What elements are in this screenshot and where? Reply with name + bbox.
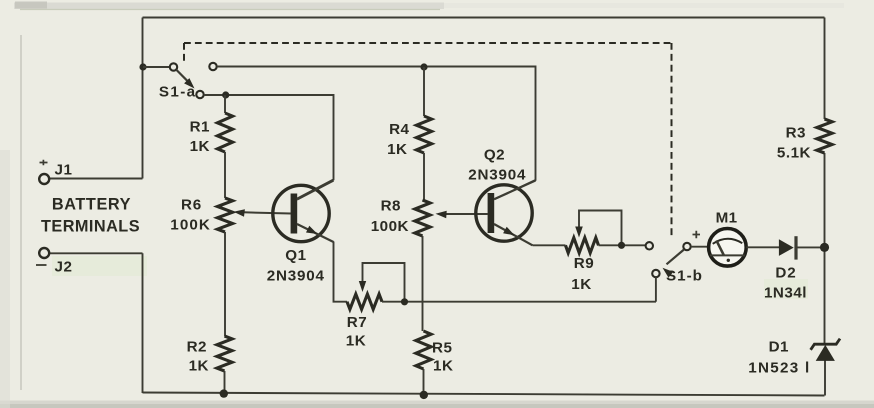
scan artifact green tint near J2 bbox=[52, 256, 147, 276]
svg-text:R7: R7 bbox=[347, 314, 367, 331]
wire S1-a pole to Q1 collector bbox=[204, 95, 334, 199]
svg-text:TERMINALS: TERMINALS bbox=[41, 218, 140, 236]
resistor R2 bbox=[217, 336, 232, 371]
node R2 bottom rail junction bbox=[220, 389, 228, 397]
svg-text:S1-b: S1-b bbox=[666, 268, 703, 285]
wire Q1 emitter down to R7 bbox=[334, 242, 348, 302]
meter M1 pivot tick bbox=[727, 259, 730, 262]
transistor Q1 emitter arrow bbox=[306, 226, 318, 234]
wire R8 wiper to Q2 base bbox=[446, 213, 488, 215]
wire R4 to R8 bbox=[423, 153, 425, 200]
wire R4 top lead bbox=[423, 67, 425, 116]
wire bottom rail bbox=[143, 393, 825, 396]
switch S1-a arm arrowhead bbox=[184, 78, 194, 88]
terminal J2 bbox=[39, 248, 49, 258]
svg-text:1K: 1K bbox=[189, 358, 209, 375]
wire Q2 emitter to R9 bbox=[533, 244, 566, 246]
wire R9 right lead bbox=[599, 244, 646, 246]
dashed gang link left drop bbox=[183, 43, 185, 62]
wire left rail (J1 to top) bbox=[142, 18, 144, 179]
resistor R3 bbox=[817, 119, 832, 153]
diode D2 cathode bar bbox=[794, 236, 797, 259]
switch S1-a arm bbox=[176, 70, 190, 85]
wire R5 bottom lead bbox=[423, 369, 425, 395]
transistor Q1 emitter stroke bbox=[297, 224, 334, 242]
dashed gang link horizontal bbox=[184, 42, 672, 44]
switch S1-b arm bbox=[667, 250, 685, 265]
rheostat R7 bbox=[347, 294, 382, 309]
svg-text:R8: R8 bbox=[381, 198, 401, 215]
wire right rail mid (R3 to D1) bbox=[824, 153, 826, 344]
meter M1 chord bbox=[710, 254, 745, 256]
node R1 top junction bbox=[222, 91, 229, 98]
wire S1-a throw2 to Q2 collector bbox=[217, 67, 536, 200]
svg-text:1K: 1K bbox=[346, 333, 366, 350]
scan artifact green tint near D2 label bbox=[764, 279, 808, 299]
svg-text:5.1K: 5.1K bbox=[777, 145, 811, 162]
svg-text:2N3904: 2N3904 bbox=[468, 167, 526, 184]
switch S1-b throw contact (from R9) bbox=[646, 242, 653, 249]
label meter + polarity bbox=[693, 231, 701, 239]
svg-text:R2: R2 bbox=[187, 339, 207, 356]
wire D2 to rail bbox=[797, 246, 822, 248]
arrow R7 wiper bbox=[359, 281, 366, 292]
wire S1-a throw1 stub bbox=[143, 66, 170, 68]
zener D1 cathode bar bbox=[811, 339, 840, 350]
svg-text:R5: R5 bbox=[432, 340, 452, 357]
svg-text:BATTERY: BATTERY bbox=[52, 196, 131, 214]
svg-text:R1: R1 bbox=[190, 119, 210, 136]
transistor Q1 body bbox=[273, 185, 329, 241]
wire R7 right lead to S1-b bbox=[382, 301, 656, 303]
wire R1 to R6 bbox=[224, 152, 226, 198]
svg-text:J2: J2 bbox=[55, 259, 73, 276]
svg-text:Q1: Q1 bbox=[285, 247, 306, 264]
node R7 wiper junction bbox=[401, 298, 408, 305]
svg-text:100K: 100K bbox=[170, 217, 211, 234]
svg-text:D2: D2 bbox=[775, 265, 796, 282]
wire M1 to D2 bbox=[746, 246, 779, 248]
wire R1 top lead bbox=[224, 95, 226, 113]
arrow R6 wiper bbox=[234, 209, 245, 217]
diode D2 triangle bbox=[779, 239, 794, 256]
switch S1-a throw1 contact bbox=[170, 63, 177, 70]
svg-text:1K: 1K bbox=[190, 138, 210, 155]
switch S1-b pole contact bbox=[652, 270, 659, 277]
svg-text:M1: M1 bbox=[716, 210, 738, 227]
transistor Q1 base bar bbox=[291, 194, 298, 234]
wire R8 to R5 bbox=[422, 236, 424, 331]
wire R2 bottom lead bbox=[224, 371, 226, 394]
dashed gang link right drop bbox=[671, 43, 673, 237]
resistor R4 bbox=[416, 116, 431, 153]
transistor Q2 body bbox=[476, 185, 532, 241]
wire S1-b to M1 bbox=[691, 246, 709, 248]
resistor R5 bbox=[416, 331, 431, 369]
svg-text:Q2: Q2 bbox=[484, 147, 505, 164]
svg-text:R9: R9 bbox=[574, 255, 594, 272]
svg-text:R6: R6 bbox=[181, 197, 202, 214]
wire J1 lead bbox=[49, 178, 143, 180]
transistor Q2 emitter arrow bbox=[503, 227, 514, 236]
node R4 top junction bbox=[420, 63, 427, 70]
svg-text:1K: 1K bbox=[433, 358, 453, 375]
scan artifact left band bbox=[0, 150, 10, 408]
wire right rail top (to R3) bbox=[824, 18, 826, 120]
scan artifact left edge line bbox=[20, 35, 22, 390]
wire R9 wiper loop bbox=[579, 211, 622, 246]
svg-text:100K: 100K bbox=[371, 218, 409, 235]
switch S1-a pole contact bbox=[196, 91, 203, 98]
scan artifact top band bbox=[14, 3, 444, 10]
terminal J1 bbox=[39, 174, 49, 184]
meter M1 scale arc bbox=[713, 239, 743, 244]
node D2 rail junction bbox=[820, 243, 829, 252]
resistor R1 bbox=[217, 113, 232, 152]
transistor Q2 emitter stroke bbox=[494, 224, 533, 245]
svg-text:1N523 l: 1N523 l bbox=[748, 360, 810, 377]
transistor Q2 collector stroke bbox=[494, 181, 536, 200]
svg-text:2N3904: 2N3904 bbox=[267, 268, 325, 285]
svg-text:1N34l: 1N34l bbox=[764, 285, 807, 302]
wire R6 wiper to Q1 base bbox=[243, 212, 291, 213]
meter M1 needle bbox=[716, 240, 724, 255]
switch S1-b arm arrowhead bbox=[663, 268, 674, 278]
wire R7 wiper loop bbox=[363, 263, 405, 302]
transistor Q1 collector stroke bbox=[297, 181, 334, 200]
node R5 bottom rail junction bbox=[420, 391, 428, 399]
potentiometer R6 bbox=[217, 198, 232, 232]
node R9 wiper junction bbox=[618, 242, 625, 249]
wire J2 lead bbox=[49, 252, 143, 254]
switch S1-a throw2 contact bbox=[209, 63, 216, 70]
node S1-a junction on left rail bbox=[139, 63, 146, 70]
wire left rail (J2 to bottom) bbox=[142, 253, 144, 393]
meter M1 body bbox=[709, 229, 747, 267]
switch S1-b meter-side contact bbox=[683, 243, 690, 250]
scan artifact bottom band bbox=[0, 401, 874, 405]
svg-text:J1: J1 bbox=[55, 162, 73, 179]
potentiometer R8 bbox=[415, 200, 430, 236]
zener D1 triangle bbox=[816, 345, 835, 361]
wire R6 to R2 bbox=[224, 232, 226, 336]
svg-text:R4: R4 bbox=[389, 121, 409, 138]
label J2 polarity - bbox=[36, 264, 47, 266]
scan artifact top-left smudge bbox=[15, 2, 47, 9]
label J1 polarity + bbox=[40, 160, 48, 165]
wire S1-b pole down bbox=[655, 277, 657, 302]
arrow R9 wiper bbox=[575, 227, 583, 238]
arrow R8 wiper bbox=[436, 211, 447, 219]
transistor Q2 base bar bbox=[488, 193, 495, 233]
svg-text:R3: R3 bbox=[786, 125, 806, 142]
rheostat R9 bbox=[566, 238, 599, 253]
svg-text:D1: D1 bbox=[769, 339, 789, 356]
wire right rail bottom (D1 to rail) bbox=[824, 361, 826, 396]
svg-text:S1-a: S1-a bbox=[159, 84, 197, 101]
wire top rail bbox=[143, 17, 825, 19]
svg-text:1K: 1K bbox=[571, 276, 591, 293]
svg-text:1K: 1K bbox=[387, 141, 407, 158]
